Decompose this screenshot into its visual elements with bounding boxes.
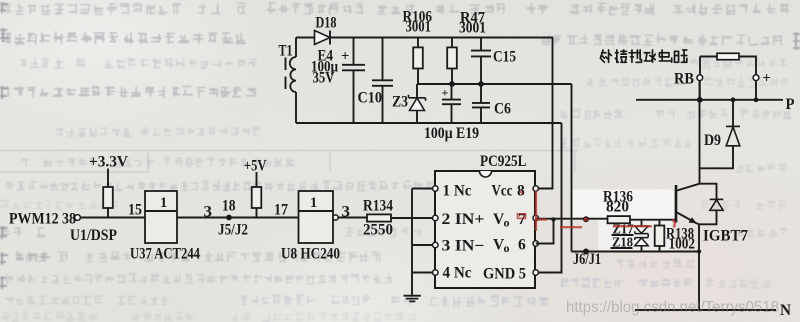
- junction node J6/J1 emitter: [583, 249, 589, 255]
- resistor R138 1002: [655, 220, 695, 253]
- wire plus terminal down: [755, 81, 757, 100]
- zener Z17: [612, 220, 649, 238]
- optocoupler driver U PC925L: [435, 153, 535, 288]
- diode D18: [315, 15, 337, 45]
- bottom supply rail: [296, 122, 562, 124]
- ground: [404, 296, 421, 302]
- terminal RB: [674, 71, 703, 88]
- braking resistor RB: [700, 53, 756, 75]
- pin 7 Vo: [493, 211, 538, 230]
- wire pins 1-3-4 tie: [412, 188, 433, 190]
- resistor R136 820: [603, 189, 633, 224]
- resistor R47 3001: [447, 10, 486, 85]
- input PWM12 38 terminal: [9, 211, 117, 245]
- wire node 18 to U8: [229, 217, 299, 219]
- pin 2 IN+: [433, 211, 485, 228]
- transistor IGBT7: [676, 184, 748, 245]
- wire PWM to U37: [80, 217, 145, 219]
- wire GND rail drop to pin 5: [536, 123, 562, 273]
- freewheel diode of IGBT7: [699, 184, 723, 225]
- capacitor C6: [472, 84, 511, 123]
- capacitor C10: [358, 38, 394, 124]
- capacitor E19: [424, 84, 479, 142]
- wire top rail: [330, 37, 553, 39]
- inverter U8 HC240: [281, 191, 340, 263]
- supply +5V: [244, 158, 267, 188]
- capacitor C15: [471, 38, 516, 85]
- red annotation marks: [518, 191, 676, 231]
- P bus line: [636, 96, 795, 113]
- pull-up resistor on +3.3V: [103, 187, 113, 218]
- mid supply junction wire: [417, 83, 572, 85]
- wire mid rail drop to emitter line: [571, 84, 573, 252]
- wire collector up to P rail: [699, 81, 701, 184]
- junction node collector on P rail: [697, 97, 703, 103]
- transformer winding T1: [279, 38, 297, 124]
- capacitor E4: [311, 38, 365, 124]
- wire emitter down to N: [698, 224, 700, 310]
- emitter reference line: [572, 251, 700, 253]
- terminal plus: [753, 71, 771, 87]
- junction node J6/J1 gate: [583, 216, 589, 222]
- wire R134 to pin 2: [391, 217, 433, 219]
- white correction boxes: [571, 190, 674, 220]
- zener Z18: [611, 235, 649, 251]
- svg-text:https://blog.csdn.net/Terrys05: https://blog.csdn.net/Terrys0518: [566, 299, 779, 316]
- resistor R134 2550: [363, 198, 393, 239]
- zener diode Z3: [392, 84, 426, 123]
- wire U8 out to R134: [338, 217, 367, 219]
- pull-up resistor on +5V: [252, 187, 262, 218]
- junction node pin6 jog on gate line: [551, 217, 555, 221]
- wire pin 6 jog: [536, 220, 554, 244]
- buffer U37 ACT244: [130, 191, 200, 263]
- node 18 J5/J2: [218, 198, 248, 239]
- junction node plus on P rail: [754, 97, 759, 102]
- wire gate line from pin 7: [536, 218, 608, 220]
- wire U37 out to node 18: [177, 217, 229, 219]
- pin 4 Nc: [433, 265, 472, 282]
- junction node emitter line at IGBT: [697, 249, 701, 253]
- wire RB terminal down: [699, 81, 701, 100]
- pin 6 Vo: [493, 237, 538, 256]
- pin 3 IN-: [433, 238, 485, 255]
- wire R136 to gate: [630, 219, 676, 221]
- N bus line: [635, 302, 791, 319]
- pin 8 Vcc: [492, 183, 539, 200]
- junction node at C15/C6: [478, 81, 484, 87]
- supply +3.3V: [89, 154, 128, 188]
- wire top rail left segment: [296, 37, 314, 39]
- junction node at R47/E19: [449, 81, 455, 87]
- resistor R106 3001: [403, 9, 433, 85]
- pin 1 Nc: [433, 183, 472, 200]
- label external braking resistor: [600, 50, 686, 62]
- pin 5 GND: [483, 266, 538, 283]
- wire Vcc drop to pin 8: [536, 38, 553, 189]
- diode D9: [700, 97, 741, 168]
